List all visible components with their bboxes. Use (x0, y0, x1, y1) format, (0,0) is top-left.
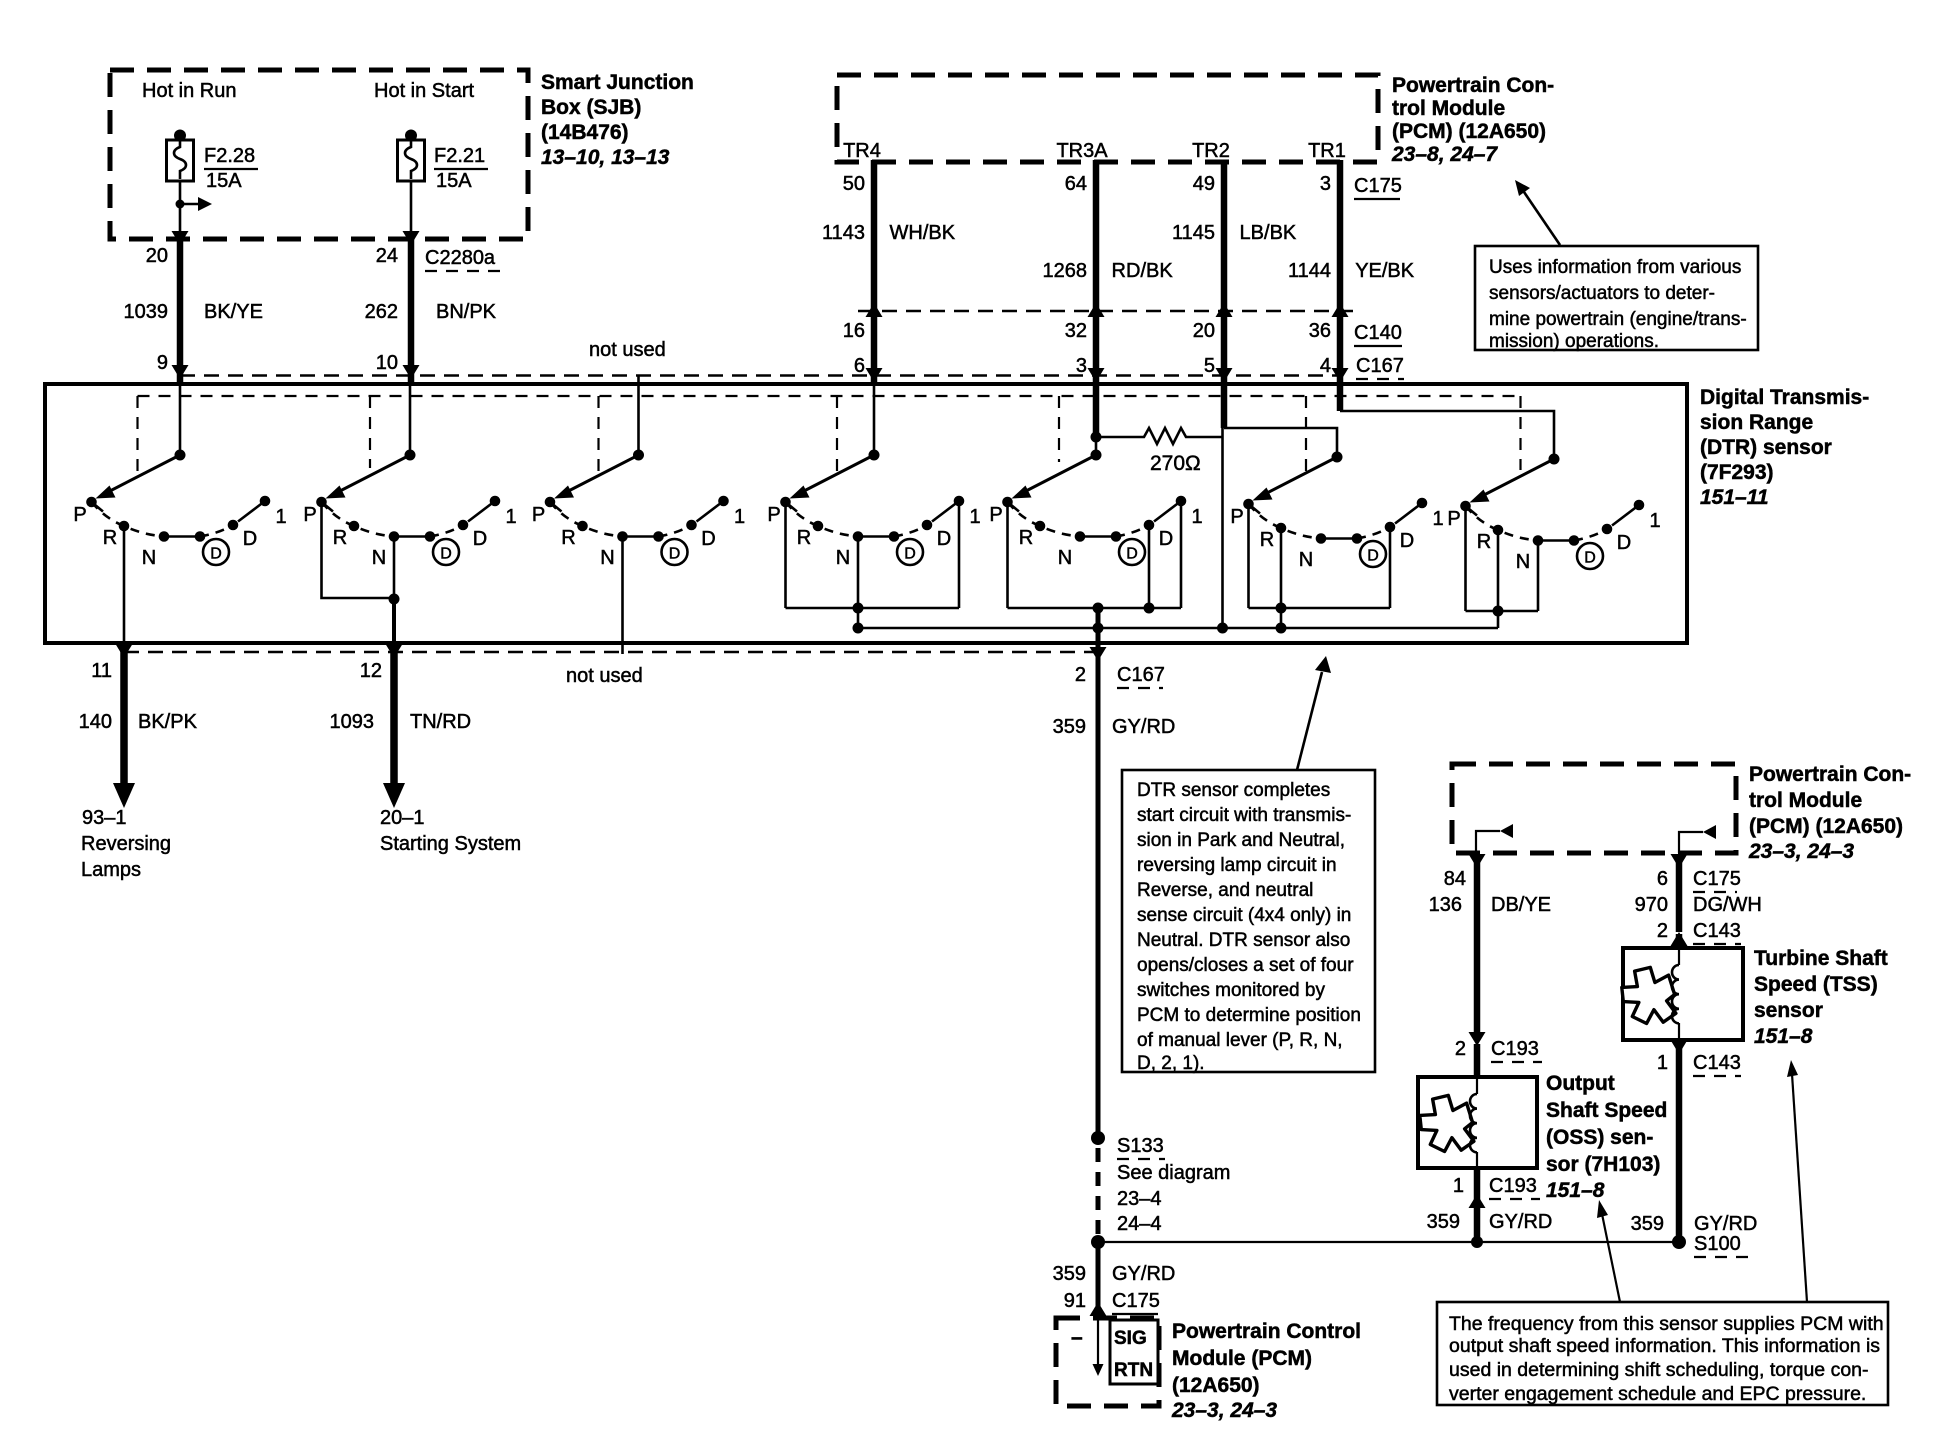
Powertrain Control Module (PCM) dashed enclosure right (1452, 764, 1736, 853)
svg-text:6: 6 (1657, 868, 1668, 890)
svg-text:TR2: TR2 (1192, 140, 1230, 162)
svg-text:DG/WH: DG/WH (1693, 894, 1762, 916)
svg-text:359: 359 (1053, 716, 1086, 738)
svg-text:C175: C175 (1693, 868, 1741, 890)
svg-text:used in determining shift sche: used in determining shift scheduling, to… (1449, 1359, 1869, 1381)
wire 1093 TN/RD (390, 645, 398, 786)
svg-text:PCM to determine position: PCM to determine position (1137, 1005, 1361, 1026)
resistor 270ohm (1096, 428, 1223, 475)
svg-text:not used: not used (589, 339, 666, 361)
svg-text:F2.28: F2.28 (204, 145, 255, 167)
svg-text:verter engagement schedule and: verter engagement schedule and EPC press… (1449, 1383, 1866, 1405)
svg-text:C167: C167 (1356, 355, 1404, 377)
svg-text:23–3, 24–3: 23–3, 24–3 (1748, 840, 1854, 863)
wire feed SW6 from pin 5 (1221, 384, 1228, 428)
svg-text:C175: C175 (1112, 1290, 1160, 1312)
svg-text:(12A650): (12A650) (1172, 1374, 1260, 1397)
svg-text:trol Module: trol Module (1749, 789, 1862, 812)
pin 2 C193 (1455, 1038, 1542, 1062)
svg-text:C143: C143 (1693, 920, 1741, 942)
Output Shaft Speed (OSS) sensor box (1418, 1077, 1537, 1168)
wire 359 GY/RD from OSS (1474, 1168, 1481, 1242)
svg-text:WH/BK: WH/BK (884, 222, 956, 244)
svg-text:Speed (TSS): Speed (TSS) (1754, 973, 1878, 996)
svg-text:(PCM) (12A650): (PCM) (12A650) (1392, 120, 1546, 143)
svg-text:359: 359 (1427, 1211, 1460, 1233)
connector dashed line above DTR box (180, 374, 1340, 376)
switch SW7 (pin 4) (1447, 454, 1660, 574)
fuse F2.28 15A (167, 140, 259, 192)
switch SW3 (not used) (532, 450, 745, 570)
note box: Uses information (1475, 246, 1758, 352)
svg-text:trol Module: trol Module (1392, 97, 1505, 120)
mechanical linkage dashed line inside DTR box (138, 395, 1521, 397)
svg-text:6: 6 (854, 355, 865, 377)
switch SW6 (pin 5) (1230, 452, 1443, 572)
svg-text:reversing lamp circuit in: reversing lamp circuit in (1137, 855, 1337, 876)
pin 91 C175 (1064, 1290, 1160, 1314)
note box: The frequency (1437, 1302, 1888, 1405)
svg-text:C143: C143 (1693, 1052, 1741, 1074)
Turbine Shaft Speed (TSS) sensor box (1622, 948, 1743, 1040)
svg-text:(OSS) sen-: (OSS) sen- (1546, 1126, 1653, 1149)
svg-text:sensors/actuators to deter-: sensors/actuators to deter- (1489, 283, 1715, 304)
svg-text:sense circuit (4x4 only) in: sense circuit (4x4 only) in (1137, 905, 1351, 926)
svg-text:84: 84 (1444, 868, 1466, 890)
wire below fuse F2.21 (410, 181, 413, 239)
svg-text:23–8, 24–7: 23–8, 24–7 (1391, 143, 1498, 166)
svg-text:C140: C140 (1354, 322, 1402, 344)
svg-text:C193: C193 (1491, 1038, 1539, 1060)
DTR label text (1700, 386, 1869, 509)
wire 136 DB/YE (1474, 855, 1481, 1040)
svg-text:359: 359 (1053, 1263, 1086, 1285)
fuse F2.21 15A (398, 140, 489, 192)
svg-text:Shaft Speed: Shaft Speed (1546, 1099, 1667, 1122)
branch arrow inside SJB (176, 197, 213, 211)
svg-text:151–11: 151–11 (1700, 486, 1769, 509)
svg-text:15A: 15A (206, 170, 242, 192)
svg-text:2: 2 (1075, 664, 1086, 686)
svg-text:20: 20 (1193, 320, 1215, 342)
wire SW4 1 drop (958, 501, 961, 608)
svg-text:23–4: 23–4 (1117, 1188, 1162, 1210)
pin 2 C167 (1075, 664, 1165, 688)
svg-text:Starting System: Starting System (380, 833, 521, 855)
SJB label text (541, 71, 694, 169)
svg-text:mission) operations.: mission) operations. (1489, 331, 1659, 352)
pin 1 C193 (1453, 1175, 1540, 1199)
dashed wire below S133 (1096, 1148, 1101, 1238)
svg-text:Turbine Shaft: Turbine Shaft (1754, 947, 1888, 970)
svg-text:Lamps: Lamps (81, 859, 141, 881)
SIG RTN box (1110, 1320, 1158, 1384)
svg-text:262: 262 (365, 301, 398, 323)
svg-text:13–10, 13–13: 13–10, 13–13 (541, 146, 670, 169)
wire SW6 loop (1249, 607, 1391, 610)
wire TR3A 1268 RD/BK (1093, 160, 1100, 384)
svg-text:1: 1 (1453, 1175, 1464, 1197)
wire SW2 junction to pin 12 (392, 599, 396, 643)
wire feed SW1 (179, 386, 182, 455)
svg-text:4: 4 (1320, 355, 1331, 377)
svg-text:TN/RD: TN/RD (410, 711, 471, 733)
flag symbol right (1679, 825, 1716, 853)
switch SW5 (pin 3) (989, 450, 1202, 570)
svg-text:GY/RD: GY/RD (1112, 716, 1175, 738)
svg-text:49: 49 (1193, 173, 1215, 195)
wire below fuse F2.28 (179, 181, 182, 239)
svg-text:Digital Transmis-: Digital Transmis- (1700, 386, 1869, 409)
svg-text:S100: S100 (1694, 1233, 1741, 1255)
svg-text:11: 11 (91, 660, 112, 682)
svg-text:DB/YE: DB/YE (1491, 894, 1551, 916)
Powertrain Control Module (PCM) dashed enclosure top (837, 75, 1378, 162)
svg-text:Module (PCM): Module (PCM) (1172, 1347, 1312, 1370)
pin 1 C143 (1657, 1052, 1741, 1076)
wire SW5 junction to pin 2 (1096, 608, 1101, 645)
svg-text:359: 359 (1631, 1213, 1664, 1235)
svg-text:TR1: TR1 (1308, 140, 1346, 162)
wire SW4 P drop (784, 502, 787, 608)
svg-text:mine powertrain (engine/trans-: mine powertrain (engine/trans- (1489, 309, 1747, 330)
wire feed SW7 from pin 4 (1337, 384, 1344, 411)
svg-text:24–4: 24–4 (1117, 1213, 1162, 1235)
svg-text:32: 32 (1065, 320, 1087, 342)
svg-text:Reversing: Reversing (81, 833, 171, 855)
svg-text:Hot in Run: Hot in Run (142, 80, 237, 102)
wire 6 C175 970 DG/WH (1676, 855, 1683, 932)
wire SW2 P contact drop (322, 502, 395, 598)
svg-text:20: 20 (146, 245, 168, 267)
svg-text:9: 9 (157, 352, 168, 374)
svg-text:Powertrain Con-: Powertrain Con- (1392, 74, 1554, 97)
arrow from note box to PCM (1515, 180, 1560, 245)
svg-text:16: 16 (843, 320, 865, 342)
wire feed SW3 from not used (637, 376, 640, 455)
OSS label text (1546, 1072, 1667, 1202)
svg-text:270Ω: 270Ω (1150, 452, 1201, 475)
Powertrain Control Module dashed enclosure bottom (1056, 1318, 1159, 1406)
arrow from note box to OSS (1597, 1200, 1620, 1302)
svg-text:LB/BK: LB/BK (1234, 222, 1297, 244)
node 93-1 Reversing Lamps (81, 807, 171, 881)
arrow from DTR note box to DTR box (1297, 656, 1331, 770)
PCM label text bottom (1171, 1320, 1361, 1422)
svg-text:sor (7H103): sor (7H103) (1546, 1153, 1660, 1176)
svg-text:sion in Park and Neutral,: sion in Park and Neutral, (1137, 830, 1345, 851)
wire 359 GY/RD to PCM pin 91 (1096, 1242, 1101, 1308)
svg-text:See diagram: See diagram (1117, 1162, 1230, 1184)
svg-text:The frequency from this sensor: The frequency from this sensor supplies … (1449, 1313, 1884, 1335)
svg-text:1144: 1144 (1288, 260, 1331, 282)
connector C140 dashed line (858, 310, 1354, 312)
wire SW7 P drop (1464, 506, 1467, 611)
PCM label text top (1391, 74, 1554, 166)
svg-text:Hot in Start: Hot in Start (374, 80, 474, 102)
connector dashed line below DTR box (124, 651, 1098, 653)
wire SW5 P drop (1006, 502, 1009, 608)
svg-text:Neutral. DTR sensor also: Neutral. DTR sensor also (1137, 930, 1350, 951)
svg-text:sion Range: sion Range (1700, 411, 1813, 434)
svg-text:Powertrain Con-: Powertrain Con- (1749, 763, 1911, 786)
svg-text:2: 2 (1657, 920, 1668, 942)
connector C167 pin labels top (854, 355, 1404, 379)
svg-text:of manual lever (P, R, N,: of manual lever (P, R, N, (1137, 1030, 1343, 1051)
svg-text:140: 140 (79, 711, 112, 733)
bus wire inside DTR box (858, 627, 1498, 630)
svg-text:F2.21: F2.21 (434, 145, 485, 167)
wire SW2 N contact drop (393, 537, 396, 599)
svg-text:970: 970 (1635, 894, 1668, 916)
svg-text:5: 5 (1204, 355, 1215, 377)
svg-text:50: 50 (843, 173, 865, 195)
svg-text:136: 136 (1429, 894, 1462, 916)
svg-text:switches monitored by: switches monitored by (1137, 980, 1325, 1001)
svg-text:91: 91 (1064, 1290, 1086, 1312)
svg-text:36: 36 (1309, 320, 1331, 342)
svg-text:(DTR) sensor: (DTR) sensor (1700, 436, 1832, 459)
arrow from note box to TSS (1787, 1060, 1807, 1302)
svg-text:Powertrain Control: Powertrain Control (1172, 1320, 1361, 1343)
wire SW4 loop (786, 607, 960, 610)
svg-text:Uses information from various: Uses information from various (1489, 257, 1741, 278)
connector C2280a arrows (172, 231, 189, 245)
svg-text:S133: S133 (1117, 1135, 1164, 1157)
svg-text:1145: 1145 (1172, 222, 1215, 244)
wire TR1 1144 YE/BK (1337, 160, 1344, 384)
wire resistor drop to bus (1221, 428, 1224, 628)
svg-text:output shaft speed information: output shaft speed information. This inf… (1449, 1335, 1880, 1357)
switch SW4 (pin 6) (767, 450, 980, 570)
svg-text:3: 3 (1320, 173, 1331, 195)
switch SW1 (pin 9) (73, 450, 286, 570)
wire SW5 D drop (1148, 525, 1151, 608)
node 20-1 Starting System (380, 807, 521, 855)
svg-text:SIG: SIG (1114, 1328, 1147, 1349)
svg-text:1093: 1093 (330, 711, 375, 733)
wire SW7 N drop (1537, 541, 1540, 612)
svg-text:1268: 1268 (1043, 260, 1088, 282)
wire SW7 loop (1466, 610, 1539, 613)
svg-text:sensor: sensor (1754, 999, 1823, 1022)
svg-text:GY/RD: GY/RD (1112, 1263, 1175, 1285)
wire 359 GY/RD to S133 (1096, 645, 1101, 1138)
wire into TSS sensor (1676, 934, 1683, 948)
svg-text:start circuit with transmis-: start circuit with transmis- (1137, 805, 1351, 826)
svg-text:15A: 15A (436, 170, 472, 192)
svg-text:2: 2 (1455, 1038, 1466, 1060)
connector C175 pin labels (843, 173, 1402, 199)
svg-text:151–8: 151–8 (1754, 1025, 1813, 1048)
svg-text:(PCM) (12A650): (PCM) (12A650) (1749, 815, 1903, 838)
wire TR2 1145 LB/BK (1221, 160, 1228, 384)
svg-text:(14B476): (14B476) (541, 121, 629, 144)
splice S100 (1672, 1233, 1752, 1257)
svg-text:1143: 1143 (822, 222, 865, 244)
wire 359 GY/RD from TSS (1676, 1040, 1683, 1242)
wire into OSS sensor (1474, 1044, 1481, 1077)
wire labels 1143 WH/BK 1145 LB/BK (822, 222, 1297, 244)
svg-text:YE/BK: YE/BK (1350, 260, 1415, 282)
wire SW1 R contact to pin 11 (123, 526, 126, 643)
wire horizontal to S100 (1098, 1241, 1678, 1243)
svg-text:DTR sensor completes: DTR sensor completes (1137, 780, 1330, 801)
svg-text:C193: C193 (1489, 1175, 1537, 1197)
wire SW5 1 drop (1180, 501, 1183, 608)
svg-text:20–1: 20–1 (380, 807, 425, 829)
wire stub above fuse F2.21 (405, 130, 417, 142)
wire inside PCM to SIG RTN (1097, 1308, 1099, 1364)
svg-text:opens/closes a set of four: opens/closes a set of four (1137, 955, 1354, 976)
wire feed SW5 (1093, 384, 1100, 437)
PCM label text right (1748, 763, 1911, 863)
svg-text:RTN: RTN (1114, 1360, 1153, 1381)
wire SW6 D drop (1389, 527, 1392, 608)
wire 262 BN/PK (408, 239, 415, 382)
wire 1039 BK/YE (177, 239, 184, 382)
svg-text:C167: C167 (1117, 664, 1165, 686)
svg-text:Box (SJB): Box (SJB) (541, 96, 641, 119)
svg-text:TR3A: TR3A (1056, 140, 1108, 162)
svg-text:–: – (1071, 1326, 1083, 1349)
wire TR4 1143 WH/BK (871, 160, 878, 384)
wire SW6 P drop (1247, 504, 1250, 608)
svg-text:12: 12 (360, 660, 382, 682)
svg-text:GY/RD: GY/RD (1489, 1211, 1552, 1233)
wire 140 BK/PK (120, 645, 128, 786)
wire SW7 R to bus (1497, 611, 1500, 628)
splice S133 (1091, 1131, 1230, 1235)
svg-text:93–1: 93–1 (82, 807, 127, 829)
svg-text:C175: C175 (1354, 175, 1402, 197)
svg-text:D, 2, 1).: D, 2, 1). (1137, 1053, 1205, 1074)
connector C140 pin labels (843, 320, 1402, 346)
wire SW7 R drop (1497, 530, 1500, 611)
connector C2280a labels (146, 245, 501, 271)
svg-text:1: 1 (1657, 1052, 1668, 1074)
Smart Junction Box (SJB) dashed enclosure (110, 70, 528, 239)
svg-text:64: 64 (1065, 173, 1087, 195)
svg-text:151–8: 151–8 (1546, 1179, 1605, 1202)
svg-text:BK/PK: BK/PK (138, 711, 198, 733)
wire SW5 loop (1008, 607, 1182, 610)
svg-text:Reverse, and neutral: Reverse, and neutral (1137, 880, 1313, 901)
switch SW2 (pin 10) (303, 450, 516, 570)
svg-text:BN/PK: BN/PK (436, 301, 497, 323)
svg-text:BK/YE: BK/YE (204, 301, 263, 323)
note box: DTR sensor completes (1122, 770, 1375, 1074)
wire SW6 R drop (1280, 528, 1283, 608)
wire SW4 N drop (857, 537, 860, 609)
svg-text:10: 10 (376, 352, 398, 374)
svg-text:C2280a: C2280a (425, 247, 496, 269)
splice junction dot (1091, 1235, 1105, 1249)
svg-text:TR4: TR4 (843, 140, 881, 162)
wire feed SW2 (409, 386, 412, 455)
svg-text:(7F293): (7F293) (1700, 461, 1774, 484)
wire feed SW4 (873, 386, 876, 455)
svg-text:Smart Junction: Smart Junction (541, 71, 694, 94)
svg-text:3: 3 (1076, 355, 1087, 377)
svg-text:GY/RD: GY/RD (1694, 1213, 1757, 1235)
wire SW3 N contact drop (not used) (621, 537, 624, 655)
svg-text:1039: 1039 (124, 301, 169, 323)
svg-text:RD/BK: RD/BK (1106, 260, 1173, 282)
svg-text:Output: Output (1546, 1072, 1615, 1095)
Digital Transmission Range (DTR) sensor box (45, 384, 1687, 643)
svg-text:23–3, 24–3: 23–3, 24–3 (1171, 1399, 1277, 1422)
wire stub above fuse F2.28 (174, 130, 186, 142)
svg-text:24: 24 (376, 245, 398, 267)
wire labels 1268 RD/BK 1144 YE/BK (1043, 260, 1415, 282)
TSS label text (1754, 947, 1888, 1048)
svg-text:not used: not used (566, 665, 643, 687)
flag symbol left (1476, 824, 1513, 853)
